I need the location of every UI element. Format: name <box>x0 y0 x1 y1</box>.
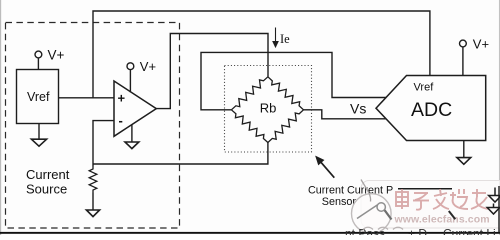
svg-text:Ie: Ie <box>280 32 290 46</box>
svg-text:Vref: Vref <box>414 82 435 94</box>
watermark stamp logo <box>352 180 392 234</box>
bridge resistor top-left arm <box>231 77 268 110</box>
cropped caption fragments <box>345 227 496 240</box>
bridge resistor bottom-left arm <box>231 110 268 143</box>
ground (Vref) <box>31 139 46 146</box>
svg-text:ADC: ADC <box>411 99 452 121</box>
resistor R1 <box>89 167 97 193</box>
watermark chinese glyphs <box>396 189 488 210</box>
wire: V+ to op-amp <box>129 70 131 93</box>
wire: V+ to Vref box <box>37 58 39 70</box>
wire: Vref output to op-amp + input <box>59 97 115 99</box>
terminal V+ (ADC) <box>460 40 467 47</box>
svg-text:Source: Source <box>26 181 67 196</box>
svg-text:Current: Current <box>26 167 70 182</box>
wire: feedback node to bridge bottom <box>93 143 268 165</box>
svg-text:Vs: Vs <box>350 101 366 117</box>
cropped arrow right 1 <box>489 188 500 203</box>
terminal V+ (current source) <box>35 51 42 58</box>
svg-text:+: + <box>118 91 126 106</box>
faint cropped text under watermark <box>363 227 403 229</box>
arrow Ie <box>273 28 278 47</box>
svg-text:Rb: Rb <box>260 100 277 115</box>
arrow to sensor box <box>316 157 334 178</box>
ground (op-amp) <box>125 142 139 149</box>
dashed box: Current Source <box>6 23 180 229</box>
ground (R1) <box>86 210 99 217</box>
wire: bridge right to ADC lower input <box>304 110 386 119</box>
wire: Vref box to ground <box>38 124 40 140</box>
Vref box <box>17 70 59 124</box>
svg-text:Vref: Vref <box>27 90 50 104</box>
svg-text:+ D: + D <box>408 227 427 235</box>
svg-text:-: - <box>119 113 123 128</box>
cropped line over watermark <box>398 188 452 190</box>
bridge resistor top-right arm <box>268 77 304 110</box>
wire: V+ to ADC <box>462 47 464 76</box>
wire: top rail Vref to ADC <box>93 11 430 98</box>
bottom rule <box>0 232 500 234</box>
left image border <box>0 0 2 235</box>
svg-text:Current Li: Current Li <box>443 227 496 235</box>
dotted box: sensor <box>225 66 312 153</box>
op-amp U1 <box>114 81 156 136</box>
wire: bridge left to ADC upper input <box>201 52 386 109</box>
svg-text:Current Current P: Current Current P <box>308 184 393 196</box>
wire: op-amp output to bridge top <box>156 34 268 109</box>
ADC block <box>376 76 486 141</box>
svg-text:V+: V+ <box>140 59 156 74</box>
wire: R1 to ground <box>92 193 94 211</box>
wire: op-amp inverting input <box>93 121 114 167</box>
wire: op-amp to ground <box>131 125 133 142</box>
svg-text:V+: V+ <box>48 47 65 62</box>
cropped arrow right 2 <box>487 204 500 215</box>
svg-text:V+: V+ <box>473 36 489 51</box>
cropped box edge right <box>498 186 500 233</box>
svg-text:www.elecfans.com: www.elecfans.com <box>394 214 490 226</box>
watermark panel <box>361 181 500 229</box>
svg-text:Sensor: Sensor <box>322 196 357 208</box>
wire: ADC to ground <box>463 141 465 158</box>
terminal V+ (op-amp) <box>127 63 134 70</box>
right image border <box>499 0 500 235</box>
bridge resistor bottom-right arm <box>268 110 304 143</box>
cropped arrow fragment over watermark <box>449 211 456 219</box>
ground (ADC) <box>457 158 471 165</box>
